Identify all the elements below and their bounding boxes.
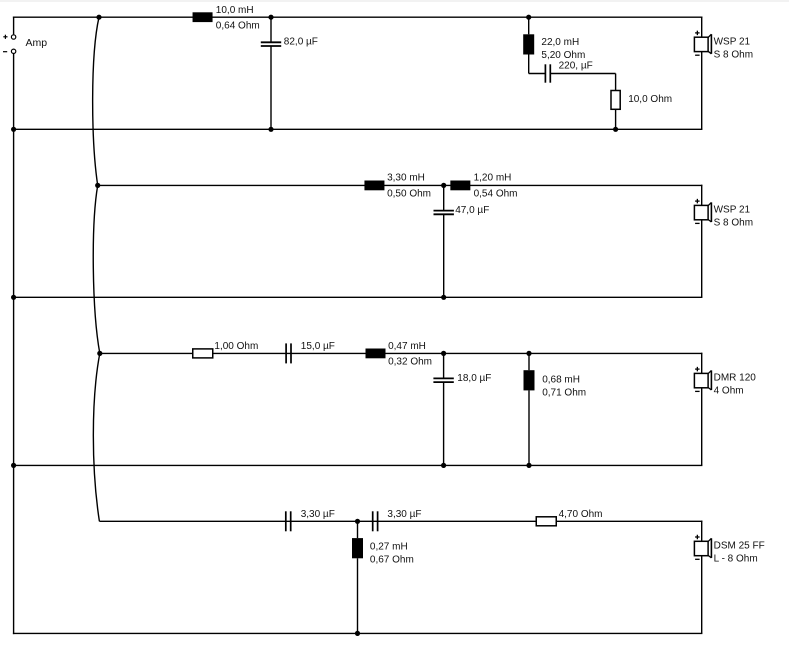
svg-text:S 8 Ohm: S 8 Ohm	[714, 49, 753, 60]
svg-text:3,30 µF: 3,30 µF	[301, 509, 335, 520]
svg-text:0,67 Ohm: 0,67 Ohm	[370, 555, 414, 566]
svg-text:0,27 mH: 0,27 mH	[370, 542, 408, 553]
svg-text:22,0 mH: 22,0 mH	[541, 37, 579, 48]
svg-text:WSP 21: WSP 21	[714, 36, 751, 47]
svg-text:15,0 µF: 15,0 µF	[301, 341, 335, 352]
svg-text:10,0 mH: 10,0 mH	[216, 5, 254, 16]
svg-text:82,0 µF: 82,0 µF	[284, 37, 318, 48]
svg-text:0,32 Ohm: 0,32 Ohm	[388, 357, 432, 368]
svg-text:220, µF: 220, µF	[559, 61, 593, 72]
svg-text:18,0 µF: 18,0 µF	[457, 373, 491, 384]
svg-text:WSP 21: WSP 21	[714, 205, 751, 216]
svg-text:3,30 mH: 3,30 mH	[387, 173, 425, 184]
svg-text:4 Ohm: 4 Ohm	[714, 386, 744, 397]
svg-text:DMR 120: DMR 120	[714, 373, 757, 384]
svg-text:0,50 Ohm: 0,50 Ohm	[387, 189, 431, 200]
svg-text:L - 8 Ohm: L - 8 Ohm	[714, 554, 758, 565]
svg-text:DSM 25 FF: DSM 25 FF	[714, 540, 765, 551]
svg-text:4,70 Ohm: 4,70 Ohm	[559, 509, 603, 520]
svg-text:1,00 Ohm: 1,00 Ohm	[214, 341, 258, 352]
svg-text:0,64 Ohm: 0,64 Ohm	[216, 21, 260, 32]
svg-text:1,20 mH: 1,20 mH	[474, 173, 512, 184]
svg-text:0,54 Ohm: 0,54 Ohm	[474, 189, 518, 200]
svg-text:0,71 Ohm: 0,71 Ohm	[542, 388, 586, 399]
svg-text:47,0 µF: 47,0 µF	[455, 205, 489, 216]
svg-text:0,68 mH: 0,68 mH	[542, 374, 580, 385]
svg-text:3,30 µF: 3,30 µF	[387, 509, 421, 520]
svg-text:0,47 mH: 0,47 mH	[388, 341, 426, 352]
svg-text:Amp: Amp	[26, 37, 48, 49]
svg-text:10,0 Ohm: 10,0 Ohm	[628, 94, 672, 105]
svg-text:S 8 Ohm: S 8 Ohm	[714, 218, 753, 229]
